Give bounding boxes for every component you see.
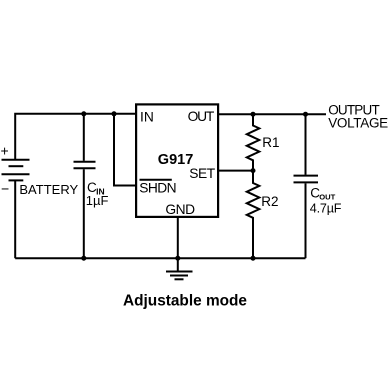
- svg-text:VOLTAGE: VOLTAGE: [328, 115, 388, 130]
- svg-text:4.7µF: 4.7µF: [310, 201, 342, 215]
- svg-text:Adjustable mode: Adjustable mode: [123, 293, 247, 310]
- svg-text:BATTERY: BATTERY: [19, 182, 78, 197]
- svg-text:G917: G917: [158, 152, 193, 168]
- svg-text:−: −: [1, 181, 9, 197]
- svg-text:+: +: [1, 143, 9, 159]
- svg-text:OUT: OUT: [188, 109, 215, 124]
- svg-text:SHDN: SHDN: [139, 180, 176, 195]
- svg-text:1µF: 1µF: [86, 193, 109, 208]
- svg-text:R1: R1: [262, 135, 279, 150]
- svg-text:IN: IN: [140, 109, 154, 124]
- svg-text:R2: R2: [261, 194, 278, 209]
- svg-text:SET: SET: [189, 166, 215, 181]
- svg-text:GND: GND: [165, 202, 195, 217]
